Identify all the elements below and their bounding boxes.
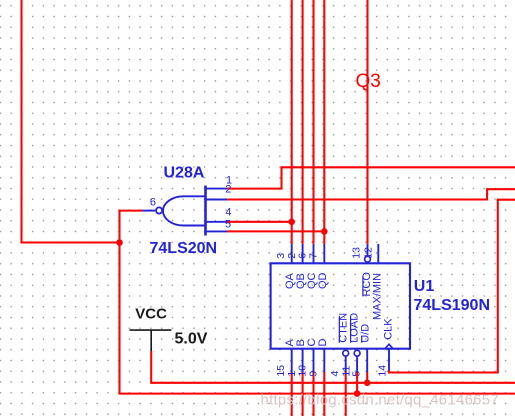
wire: CTEN vertical — [345, 372, 347, 416]
wire: QD vertical — [323, 0, 325, 244]
svg-text:2: 2 — [225, 183, 231, 195]
wire: A input vertical — [291, 372, 293, 416]
wire: D input vertical — [323, 372, 325, 416]
U1 top pin stubs — [292, 244, 379, 263]
wire: left vertical net into junction — [22, 0, 120, 243]
svg-text:12: 12 — [363, 247, 375, 259]
wire: gate pin4 to QA — [227, 221, 292, 223]
op-amp U28A gate body 74LS20 NAND mirrored — [142, 186, 227, 236]
IC U1 74LS190N body — [271, 263, 410, 348]
wire: LOAD stub to net — [356, 372, 358, 394]
svg-text:U28A: U28A — [164, 165, 205, 182]
svg-text:7: 7 — [308, 253, 320, 259]
svg-text:VCC: VCC — [135, 306, 167, 323]
node: junction gate output net — [116, 239, 123, 246]
svg-text:5: 5 — [350, 371, 362, 377]
svg-text:Q3: Q3 — [356, 71, 381, 92]
wire: Q3 RCO net vertical — [366, 0, 368, 244]
svg-text:CLK: CLK — [382, 318, 394, 340]
wire: gate pin1 net up and right — [227, 167, 515, 188]
RCO pin bubble — [365, 256, 371, 262]
wire: NAND output net bottom horizontal to LOAD — [120, 392, 515, 395]
svg-text:74LS20N: 74LS20N — [150, 240, 218, 257]
wire: CLK net right and up — [389, 200, 515, 373]
svg-text:D: D — [317, 339, 329, 347]
svg-text:6: 6 — [150, 197, 156, 209]
wire: B input vertical — [302, 372, 304, 416]
node: junction QA / pin4 — [288, 219, 295, 226]
svg-text:13: 13 — [351, 247, 363, 259]
wire: QB vertical — [302, 0, 304, 244]
wire: NAND output net vertical — [120, 211, 143, 393]
wire: QA vertical — [291, 0, 293, 244]
node: junction LOAD / gate output — [354, 390, 361, 397]
U1 bottom pin stubs — [292, 349, 389, 373]
svg-text:5.0V: 5.0V — [175, 331, 208, 348]
wire: gate pin2 net right with jog — [227, 189, 515, 199]
power VCC symbol — [130, 330, 172, 351]
svg-text:14: 14 — [376, 365, 388, 377]
node: junction U/D / VCC — [364, 380, 371, 387]
wire: C input vertical — [312, 372, 314, 416]
node: junction QD / pin5 — [321, 228, 328, 235]
svg-text:9: 9 — [308, 371, 320, 377]
wire: gate pin5 to QD — [227, 230, 324, 232]
svg-text:5: 5 — [225, 219, 231, 231]
wire: U/D stub to VCC net — [366, 372, 368, 383]
svg-text:U1: U1 — [414, 278, 435, 295]
svg-text:4: 4 — [225, 207, 231, 219]
svg-text:74LS190N: 74LS190N — [414, 297, 491, 314]
CTEN pin bubble — [343, 350, 349, 356]
svg-text:4: 4 — [329, 371, 341, 377]
gate output bubble — [156, 207, 162, 213]
svg-text:MAX/MIN: MAX/MIN — [371, 273, 383, 320]
LOAD pin bubble — [354, 350, 360, 356]
wire: VCC net down and right — [151, 351, 515, 383]
svg-text:QD: QD — [317, 272, 329, 289]
svg-text:https://blog.csdn.net/qq_46146: https://blog.csdn.net/qq_46146657 — [261, 391, 499, 408]
CLK edge triangle — [385, 344, 393, 349]
wire: QC vertical — [312, 0, 314, 244]
